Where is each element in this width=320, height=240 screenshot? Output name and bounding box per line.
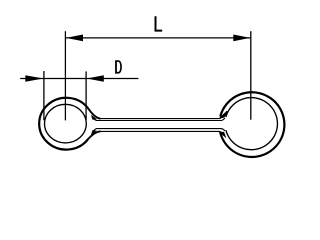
bar bottom inner edge <box>93 129 225 133</box>
dimension D line <box>20 78 138 80</box>
extension line left circle centerline <box>64 31 66 120</box>
dimension D right arrowhead <box>87 75 104 81</box>
extension line right circle centerline <box>250 31 252 120</box>
label D <box>115 60 122 73</box>
junction wedge right bottom <box>219 132 226 138</box>
extension line D left <box>43 71 45 120</box>
bar bottom outer fillet left <box>88 131 100 138</box>
dimension L line <box>65 37 250 39</box>
bar bottom outer edge <box>99 131 220 133</box>
junction wedge left top <box>91 115 96 119</box>
bar top inner edge <box>93 118 225 121</box>
bar top outer fillet left <box>88 109 100 119</box>
junction wedge left bottom <box>91 130 96 134</box>
dimension L right arrowhead <box>233 35 250 42</box>
bar top outer edge <box>99 116 220 118</box>
left ring inner hole <box>45 104 87 143</box>
junction wedge right top <box>220 111 227 118</box>
extension line D right <box>85 71 87 120</box>
right ring inner hole arc <box>226 98 278 150</box>
left ring outer profile <box>39 98 88 150</box>
label L <box>155 16 163 31</box>
right ring outer profile <box>220 92 284 157</box>
dimension D left arrowhead <box>25 75 43 81</box>
dimension L left arrowhead <box>66 35 83 42</box>
